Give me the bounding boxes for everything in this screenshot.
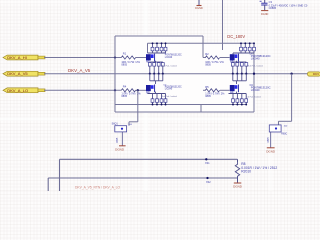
junction dot row3 [114,89,116,91]
wire rail drop left to D1 [147,43,149,53]
junction dot row1 [114,56,116,58]
svg-text:DGND: DGND [233,185,243,189]
capacitor bank top-right [233,42,255,53]
svg-text:DKV_A_V5: DKV_A_V5 [68,68,91,73]
svg-text:Sub Pad - Isolated: Sub Pad - Isolated [246,96,261,99]
ground DGND below R8 [233,178,243,189]
svg-text:Sub Pad - Isolated: Sub Pad - Isolated [162,64,177,67]
port DKV_A_LO [3,88,45,93]
capacitor C3 [260,0,308,10]
svg-text:100: 100 [128,124,132,126]
svg-text:Sub Pad - Isolated: Sub Pad - Isolated [248,64,263,67]
wire bottom A [60,159,238,191]
wire drop to box S2 [279,73,293,128]
svg-text:LIC040: LIC040 [165,89,173,91]
svg-text:DKV_A_LO: DKV_A_LO [7,88,28,93]
svg-text:R1: R1 [123,52,127,56]
capacitor bank mid-left [148,61,164,84]
wire row2 mid rail full width [44,73,308,75]
junction dot tap S1 [137,89,139,91]
svg-text:0805: 0805 [121,63,127,67]
wire bottom B [48,178,237,191]
svg-text:DKV_A_V5: DKV_A_V5 [7,71,28,76]
capacitor bank mid-right [231,61,247,84]
capacitor bank top-left [148,42,167,53]
capacitor bank bottom-right [229,92,248,106]
svg-text:DKV: DKV [313,72,319,76]
svg-text:LIC040: LIC040 [251,57,260,61]
svg-text:DGND: DGND [195,6,203,10]
svg-text:R2: R2 [205,52,209,56]
svg-text:DGND: DGND [266,149,276,153]
svg-text:C0805: C0805 [269,6,277,10]
ground DGND top [195,0,203,10]
svg-text:0805: 0805 [117,137,119,143]
svg-text:0805: 0805 [121,94,127,98]
wire box top edge [115,35,203,37]
wire row1 from port to R1 [44,57,121,59]
wire rail drop right [253,43,255,112]
svg-text:XS2: XS2 [206,181,211,184]
device D3 [146,85,155,95]
svg-text:100: 100 [284,125,288,127]
box S2 [269,125,287,136]
svg-text:R60C: R60C [281,134,287,136]
wire row3 from port to R4 [44,89,121,91]
label D2 [250,52,271,60]
wire stub D2 top [232,53,234,54]
port right DKV [308,72,320,76]
resistor R4 [121,84,146,98]
svg-text:DKV_A_HI: DKV_A_HI [7,55,27,60]
junction dot rail right on row2 [253,73,255,75]
resistor R5 [203,85,230,98]
label D4 [250,84,271,92]
sheet box white fill [115,36,204,112]
resistor R2 [203,52,230,66]
label D1 [164,53,182,59]
svg-text:DKV_A_V5_RTN / DKV_A_LO: DKV_A_V5_RTN / DKV_A_LO [75,185,120,189]
wire box right edge upper [202,36,204,58]
svg-text:R2010: R2010 [241,170,251,174]
svg-text:Sub Pad - Isolated: Sub Pad - Isolated [162,95,177,98]
wire box lower edge [115,111,254,113]
svg-text:LIC040: LIC040 [251,88,260,92]
wire box left edge [114,36,116,112]
resistor R1 [121,52,146,67]
wire stub railbot to lower edge [200,105,202,113]
label D3 [164,84,182,90]
capacitor bank bottom-left [148,92,167,106]
wire DC vertical from top [222,0,224,50]
svg-text:XS1: XS1 [205,162,210,165]
box S1 [112,122,127,132]
ground DGND below box S2 [266,132,276,153]
svg-text:R5: R5 [205,85,209,89]
svg-text:S6Q1: S6Q1 [112,122,119,125]
svg-text:DGND: DGND [261,13,269,16]
port DKV_A_V5 [3,71,45,76]
wire drop to box S1 [128,90,138,126]
ground DGND below box S1 [115,132,125,152]
svg-text:0805: 0805 [205,63,211,67]
wire box bottom rail [115,104,246,106]
svg-text:DGND: DGND [115,148,125,152]
svg-text:DC_180V: DC_180V [227,34,245,39]
grid major white bands [144,0,149,191]
svg-text:0805: 0805 [268,137,270,143]
resistor R8 [235,159,277,178]
junction dot bottom A [205,158,210,165]
device D2 [230,54,239,64]
device D1 [146,54,155,64]
ground DGND below C3 [261,10,268,12]
port DKV_A_HI [3,55,45,60]
svg-text:LIC040: LIC040 [165,57,173,59]
svg-text:0805: 0805 [205,94,211,98]
device D4 [230,85,239,95]
junction dot bottom B [206,177,211,184]
wire top cap rail [148,42,255,44]
svg-text:R4: R4 [123,84,127,88]
